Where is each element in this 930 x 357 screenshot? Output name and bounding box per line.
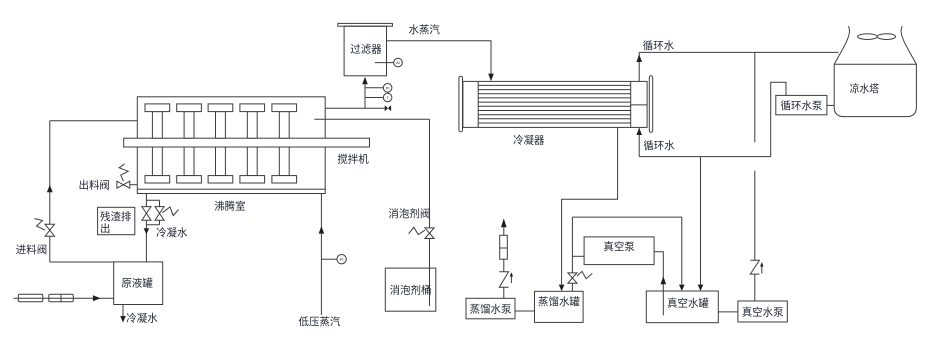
flow arrow up on feed line [47,185,53,193]
valve handle zigzag 出料阀 [119,164,128,181]
wire pump to tank [515,310,535,312]
condenser pass partition [631,104,647,106]
wire feed line vertical [49,121,51,262]
filter box 过滤器 [344,26,386,76]
svg-text:PI: PI [340,257,344,262]
arrow up into filter [362,77,368,84]
pump box 真空水泵 [738,301,787,322]
boiling chamber 沸腾室 [137,97,325,189]
valve handle zigzag condensate [162,207,178,216]
tank 真空水罐 [646,291,718,323]
svg-text:真空水罐: 真空水罐 [667,297,709,310]
flow meter rotameter [500,235,508,259]
valve condensate 2 [155,207,164,221]
chamber bottom slab [137,189,325,193]
break symbol Z with arrow [750,260,759,274]
svg-text:出料阀: 出料阀 [79,178,110,191]
wire vacuum water pump riser with crossover gap [754,52,756,301]
instrument AI beside filter [375,62,394,64]
cooling tower 凉水塔 body [834,64,916,116]
svg-text:冷凝器: 冷凝器 [513,134,545,147]
wire feed top horizontal to boiling chamber [50,120,138,122]
svg-text:进料阀: 进料阀 [16,243,47,256]
valve 进料阀 [45,224,54,236]
condenser body 冷凝器 [463,81,647,127]
wire pump to tower [827,104,835,106]
wire condenser top outlet riser [638,52,640,81]
svg-text:循环水泵: 循环水泵 [781,99,823,112]
wire steam riser under chamber [320,194,322,316]
barrel 消泡剂桶 [385,268,436,311]
svg-text:凉水塔: 凉水塔 [850,82,880,95]
valve distilled tank inlet [568,273,577,283]
chamber drain with twin valves [145,194,147,263]
svg-text:循环水: 循环水 [643,39,675,52]
svg-text:搅拌机: 搅拌机 [337,152,369,165]
arrow up steam [319,226,325,234]
svg-text:AI: AI [396,60,400,65]
arrow down condensate [120,316,126,323]
pump box 循环水泵 [776,95,827,114]
svg-text:蒸馏水罐: 蒸馏水罐 [538,295,580,308]
cooling tower neck left [834,26,849,64]
inline filter 1 [18,294,43,302]
wire riser below filter [364,81,366,109]
instrument texts [340,60,400,262]
agitator blade 3 [216,112,226,139]
wire feed bottom horizontal to raw tank [50,261,114,263]
svg-text:冷凝水: 冷凝水 [126,312,158,325]
wire chamber to riser [325,107,365,109]
wire raw feed inlet line [14,297,114,299]
condenser left flange [459,76,463,132]
wire condensate drain from condenser [562,127,618,284]
arrow down into vacuum tank 2 [698,285,704,291]
box 残渣排出 [98,207,135,234]
pump box 蒸馏水泵 [466,298,515,319]
wire condenser bottom inlet riser [638,127,640,156]
flow arrow right into tank [93,295,101,301]
svg-text:水蒸汽: 水蒸汽 [409,23,441,36]
wire pump discharge up and over [771,82,786,156]
wire condensate drain below tank [122,305,124,317]
valve 消泡剂阀 [425,228,434,239]
svg-text:真空水泵: 真空水泵 [742,305,784,318]
instrument T stub [365,97,383,99]
wire stub to vacuum pump left [572,255,584,257]
wire antifoam line [314,119,429,306]
filter lid [338,23,393,26]
svg-text:消泡剂阀: 消泡剂阀 [388,207,430,220]
valve handle zigzag [577,271,592,278]
wire circ branch drop [700,157,702,285]
svg-text:原液罐: 原液罐 [121,277,153,290]
break symbol Z with arrow [499,272,508,288]
wire manifold left drop [571,217,573,291]
arrow up vent [501,218,507,227]
agitator blade 5 [279,112,289,139]
svg-text:消泡剂桶: 消泡剂桶 [390,284,432,297]
instrument PI on steam line [321,258,337,260]
svg-text:低压蒸汽: 低压蒸汽 [299,315,341,328]
agitator blade 4 [247,112,257,139]
wire manifold right drop [681,217,683,285]
agitator blade 2 [184,112,194,139]
tank 原液罐 [114,262,163,305]
wire tank to pump [718,311,738,313]
condenser tube sheets [478,81,631,127]
arrow up circ water out [636,54,642,62]
arrow down into condenser [488,74,494,82]
cooling tower neck right [901,26,916,64]
valve 出料阀 [117,181,130,188]
condenser right flange [649,76,652,133]
instrument PI stub [365,87,383,89]
valve handle zigzag 消泡剂阀 [409,227,425,234]
wire circulating water top line to tower [639,51,838,53]
agitator shaft [124,138,370,147]
small valve stub [365,107,385,109]
wire circulating water bottom line [639,156,771,158]
wire 出料阀 to chamber [130,184,138,186]
wire vacuum pump discharge [654,252,663,316]
svg-text:残渣排: 残渣排 [100,210,132,223]
wire distilled pump riser [503,227,505,298]
tank 蒸馏水罐 [535,291,584,322]
arrow down into distilled tank [559,285,565,292]
agitator blade 1 [152,112,162,139]
svg-text:冷凝水: 冷凝水 [156,226,188,239]
wire steam out of filter to condenser [387,41,492,74]
condenser tubes [478,85,631,123]
inline filter 2 [49,294,74,302]
svg-text:沸腾室: 沸腾室 [214,200,245,213]
cooling tower fan ellipses [858,34,878,40]
arrow up on dip tube [661,276,667,284]
svg-text:真空泵: 真空泵 [603,240,635,253]
wire vacuum manifold [572,216,681,218]
pump box 真空泵 [584,237,654,265]
valve condensate 1 [142,207,151,221]
svg-text:PI: PI [386,85,390,90]
svg-text:蒸馏水泵: 蒸馏水泵 [470,302,512,315]
arrow down to raw tank [144,228,150,234]
arrow up circ water in [636,128,642,135]
svg-text:循环水: 循环水 [643,139,675,152]
valve handle zigzag 进料阀 [35,219,46,231]
arrow down into vacuum tank 1 [679,285,685,291]
svg-text:过滤器: 过滤器 [350,43,382,56]
svg-text:出: 出 [100,222,110,235]
